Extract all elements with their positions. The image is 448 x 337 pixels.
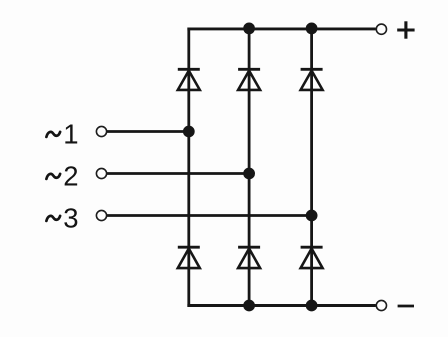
wire: input ~1 horizontal <box>107 130 189 133</box>
svg-text:1: 1 <box>63 118 78 149</box>
diode D3 (top, phase 3) <box>301 69 323 90</box>
svg-text:2: 2 <box>63 160 78 191</box>
diode D2 (top, phase 2) <box>238 69 260 90</box>
diode D5 (bottom, phase 2) <box>238 247 260 268</box>
wire: phase 1 vertical branch <box>187 28 190 307</box>
terminal circle: DC + output <box>376 24 386 34</box>
junction: top rail / phase 2 <box>243 23 255 35</box>
junction: top rail / phase 3 <box>306 23 318 35</box>
junction: input ~3 / phase 3 <box>306 210 318 222</box>
diode D1 (top, phase 1) <box>178 69 200 90</box>
wire: phase 3 vertical branch <box>310 29 313 306</box>
terminal circle: input ~2 <box>96 168 106 178</box>
junction: bottom rail / phase 3 <box>306 300 318 312</box>
label: ~3 <box>46 202 78 233</box>
diode D4 (bottom, phase 1) <box>178 247 200 268</box>
diode D6 (bottom, phase 3) <box>301 247 323 268</box>
label: + symbol <box>397 21 414 38</box>
junction: input ~2 / phase 2 <box>243 168 255 180</box>
wire: positive top rail <box>187 27 375 30</box>
terminal circle: input ~1 <box>96 126 106 136</box>
junction: input ~1 / phase 1 <box>183 126 195 138</box>
svg-text:3: 3 <box>63 202 78 233</box>
wire: input ~3 horizontal <box>107 214 312 217</box>
junction: bottom rail / phase 2 <box>243 300 255 312</box>
label: - symbol <box>398 305 414 308</box>
wire: phase 2 vertical branch <box>248 29 251 306</box>
label: ~1 <box>46 118 78 149</box>
terminal circle: DC - output <box>376 300 386 310</box>
wire: negative bottom rail <box>187 304 375 307</box>
terminal circle: input ~3 <box>96 210 106 220</box>
wire: input ~2 horizontal <box>107 172 249 175</box>
label: ~2 <box>46 160 78 191</box>
